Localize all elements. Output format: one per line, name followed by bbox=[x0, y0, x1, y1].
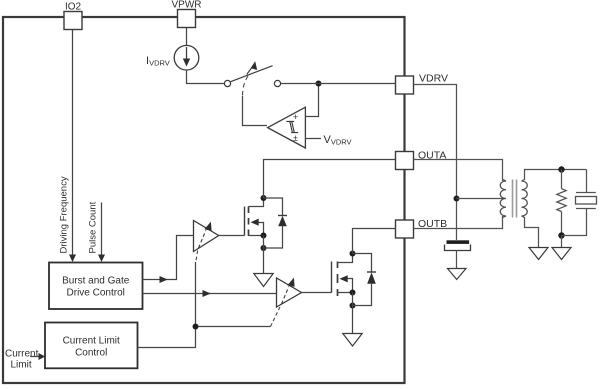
comparator U1 bbox=[268, 107, 306, 148]
node Q2 gnd junction bbox=[350, 303, 356, 309]
wire buffer1 to Q1 gate bbox=[219, 235, 245, 237]
wire center tap stub bbox=[457, 198, 505, 200]
wire comparator output to switch bbox=[243, 96, 268, 126]
pin OUTB bbox=[396, 218, 448, 238]
wire OUTA net bbox=[264, 160, 396, 199]
transistor Q2 bbox=[332, 254, 353, 297]
wire current limit to buffer controls bbox=[138, 262, 281, 348]
wire Q2 source down bbox=[352, 293, 354, 334]
svg-text:±: ± bbox=[293, 133, 298, 143]
svg-text:+: + bbox=[293, 112, 298, 122]
node load bottom bbox=[558, 232, 564, 238]
wire switch to VDRV pin bbox=[281, 83, 396, 85]
node center tap bbox=[454, 196, 460, 202]
wire OUTB net bbox=[353, 229, 396, 254]
ground load bbox=[552, 248, 571, 260]
diode D2 bbox=[353, 254, 377, 306]
block Burst and Gate Drive Control bbox=[49, 263, 143, 310]
switch S1 bbox=[224, 61, 280, 86]
transformer T1 secondary bbox=[522, 170, 587, 248]
label Current Limit input bbox=[5, 349, 45, 371]
pin VPWR bbox=[172, 0, 202, 28]
svg-text:IO2: IO2 bbox=[65, 2, 82, 13]
svg-text:Current Limit: Current Limit bbox=[63, 336, 120, 347]
block Current Limit Control bbox=[45, 323, 138, 369]
wire comparator plus input to VDRV rail bbox=[305, 84, 318, 117]
wire VVDRV reference input bbox=[305, 138, 321, 140]
piezo transducer X1 bbox=[562, 170, 597, 236]
node Q2 source bbox=[350, 290, 356, 296]
capacitor C VDRV bbox=[445, 240, 471, 268]
dashed switch control bbox=[243, 76, 249, 96]
wire Burst output to buffer1 bbox=[143, 236, 194, 284]
node Q1 gnd junction bbox=[261, 245, 267, 251]
node control junction bbox=[193, 324, 199, 330]
svg-text:Drive Control: Drive Control bbox=[67, 288, 125, 299]
ground Q1 bbox=[254, 274, 273, 287]
transformer T1 core bbox=[512, 180, 514, 218]
wire VPWR to current source bbox=[186, 28, 188, 46]
node Q2 drain bbox=[350, 251, 356, 257]
svg-text:VPWR: VPWR bbox=[172, 0, 202, 11]
node Q1 source bbox=[261, 233, 267, 239]
pin IO2 bbox=[64, 2, 82, 30]
node load top bbox=[558, 166, 564, 172]
diode D1 bbox=[264, 198, 288, 248]
wire Burst output to buffer2 bbox=[143, 290, 277, 297]
transformer T1 primary bbox=[500, 180, 506, 218]
wire IO2 driving frequency bbox=[69, 30, 76, 263]
ground secondary bbox=[529, 248, 548, 260]
svg-text:Driving Frequency: Driving Frequency bbox=[59, 176, 70, 253]
dashed buffer1 control bbox=[196, 251, 198, 262]
svg-text:Current: Current bbox=[5, 349, 39, 360]
svg-text:IVDRV: IVDRV bbox=[146, 55, 170, 68]
wire current source to switch bbox=[187, 70, 225, 84]
transistor Q1 bbox=[245, 198, 264, 236]
wire VDRV to transformer center tap bbox=[414, 85, 457, 241]
svg-text:Limit: Limit bbox=[11, 360, 32, 371]
pin VDRV bbox=[396, 73, 448, 95]
node Q1 drain bbox=[261, 195, 267, 201]
svg-text:VVDRV: VVDRV bbox=[324, 134, 352, 147]
ground Q2 bbox=[343, 334, 362, 347]
IC outline bbox=[3, 17, 405, 383]
buffer1 gate driver A bbox=[194, 221, 219, 252]
resistor R load bbox=[557, 170, 566, 236]
node switch-VDRV tap bbox=[316, 81, 322, 87]
ground capacitor bbox=[448, 269, 467, 280]
current source IVDRV bbox=[174, 45, 199, 70]
svg-text:Control: Control bbox=[75, 348, 107, 359]
wire load bottom to ground bbox=[561, 236, 563, 248]
svg-text:Burst and Gate: Burst and Gate bbox=[62, 276, 130, 287]
svg-text:Pulse Count: Pulse Count bbox=[88, 201, 99, 253]
svg-text:VDRV: VDRV bbox=[419, 73, 448, 85]
wire Q1 source down bbox=[263, 236, 265, 274]
buffer2 gate driver B bbox=[277, 278, 302, 307]
wire buffer2 to Q2 gate bbox=[302, 292, 332, 294]
pin OUTA bbox=[396, 150, 447, 170]
wire Pulse Count bbox=[98, 203, 105, 263]
